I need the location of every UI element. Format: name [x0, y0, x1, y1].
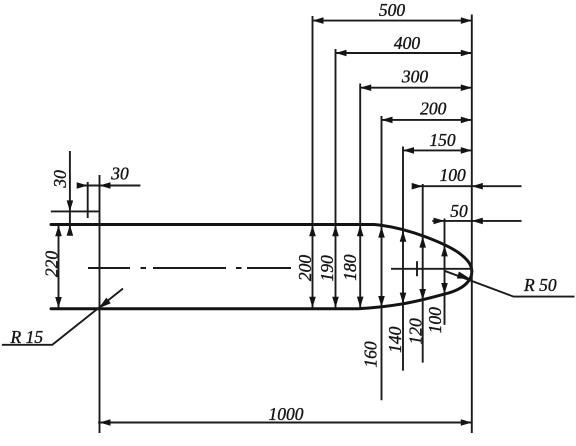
dimension 300 [360, 67, 472, 92]
body left edge / 1000 extension line [99, 175, 101, 433]
svg-text:30: 30 [110, 164, 129, 184]
dimension 50 [432, 201, 521, 224]
dimension 150 [403, 130, 472, 154]
dimension 200 [382, 99, 472, 124]
station line / width dimension 200 [295, 16, 316, 308]
dimension 500 [313, 0, 472, 24]
svg-text:100: 100 [439, 165, 466, 185]
dimension 100 [412, 165, 522, 190]
station line / width dimension 140 [385, 147, 407, 371]
svg-text:R 50: R 50 [523, 275, 557, 295]
svg-text:50: 50 [450, 201, 468, 221]
station line / width dimension 100 [425, 219, 448, 334]
R50 arc center tick [416, 261, 418, 276]
dimension 1000 [98, 404, 472, 426]
centerline dash-dot [88, 267, 291, 269]
leader R50 [445, 271, 575, 297]
station line / width dimension 160 [361, 116, 385, 400]
right extension line [471, 15, 473, 434]
centerline solid segment at tail [391, 268, 472, 270]
svg-text:160: 160 [361, 341, 381, 368]
station line / width dimension 180 [340, 84, 363, 308]
svg-text:500: 500 [379, 0, 406, 20]
svg-text:1000: 1000 [269, 404, 304, 424]
svg-text:100: 100 [425, 307, 445, 334]
svg-text:140: 140 [385, 326, 405, 353]
svg-text:R 15: R 15 [10, 327, 44, 347]
svg-text:300: 300 [401, 67, 429, 87]
svg-text:120: 120 [405, 318, 425, 345]
station line / width dimension 190 [317, 49, 339, 308]
svg-text:400: 400 [394, 33, 421, 53]
dimension 220 [41, 225, 61, 308]
vertical dimension 30 [50, 151, 73, 236]
horizontal dimension 30 [77, 164, 141, 189]
extension tick for 30 [87, 182, 89, 218]
svg-text:190: 190 [317, 255, 337, 282]
svg-text:200: 200 [295, 255, 315, 282]
svg-text:30: 30 [50, 170, 70, 189]
svg-text:150: 150 [429, 130, 456, 150]
body top outline [51, 225, 472, 272]
body bottom outline [51, 272, 472, 309]
leader R15 [2, 289, 123, 348]
dimension 400 [336, 33, 472, 56]
svg-text:220: 220 [41, 251, 61, 278]
station line / width dimension 120 [405, 184, 426, 363]
upper reference line (30 offset) [51, 210, 99, 212]
svg-text:180: 180 [340, 254, 360, 281]
svg-text:200: 200 [420, 99, 447, 119]
